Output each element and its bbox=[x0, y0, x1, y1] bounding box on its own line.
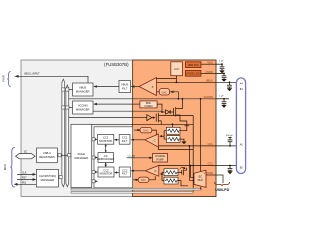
wire DVDD pin net bbox=[201, 72, 216, 74]
wire role manager to CC1 monitor bbox=[92, 138, 97, 141]
capacitor C2 (DVDD) bbox=[222, 73, 227, 79]
wire PHY vertical to rail bbox=[192, 116, 194, 192]
node USB-PD brace bbox=[215, 182, 230, 192]
mux CC switch bbox=[194, 170, 206, 187]
svg-text:1 µF: 1 µF bbox=[219, 61, 224, 63]
pin VBUS bbox=[206, 79, 213, 82]
capacitor C4 (VCONN) bbox=[222, 99, 227, 105]
wire DAC2 to comparator input bbox=[149, 176, 155, 180]
wire monitor-debouncer link 1 bbox=[105, 144, 107, 153]
wire comparator supply tap bbox=[157, 78, 177, 80]
part number label bbox=[104, 62, 129, 67]
wire mux feed vertical bbox=[200, 99, 202, 172]
capacitor C6 (CC2) bbox=[228, 166, 233, 172]
block CC2 monitor bbox=[98, 167, 114, 177]
svg-text:RST: RST bbox=[22, 178, 27, 180]
svg-text:330 pF: 330 pF bbox=[226, 135, 233, 137]
ground VDD cap bbox=[219, 70, 224, 73]
buffer TX driver bbox=[147, 115, 156, 121]
svg-text:FILT: FILT bbox=[122, 86, 128, 90]
svg-text:DVDD: DVDD bbox=[206, 71, 213, 74]
block VCONN manager bbox=[73, 101, 94, 114]
svg-text:VCONN: VCONN bbox=[204, 96, 213, 99]
svg-text:VCONN: VCONN bbox=[78, 104, 88, 108]
wire CLK in bbox=[17, 173, 36, 176]
svg-text:IRQ: IRQ bbox=[22, 183, 26, 185]
wire LDO input riser bbox=[176, 76, 178, 84]
block BMC codec bbox=[140, 101, 157, 108]
svg-text:DVDD LDO: DVDD LDO bbox=[186, 72, 199, 76]
svg-text:MCU: MCU bbox=[3, 164, 7, 170]
transistor Q1 VCONN switch bbox=[174, 99, 183, 117]
block CC1 monitor bbox=[98, 135, 114, 145]
vertical bus 2 bbox=[66, 85, 69, 187]
transistor Rp2 switch bbox=[178, 167, 186, 175]
op-amp CC1 comparator bbox=[145, 134, 158, 147]
wire TX enable bbox=[69, 117, 147, 119]
svg-text:DAC: DAC bbox=[162, 90, 168, 94]
ground DVDD cap bbox=[221, 79, 226, 82]
svg-text:USB-C: USB-C bbox=[43, 151, 51, 155]
svg-text:VDD 3V3: VDD 3V3 bbox=[188, 63, 199, 67]
wire CC1 aux net bbox=[158, 147, 193, 149]
svg-text:PWR: PWR bbox=[2, 75, 6, 82]
wire CC1 comparator output to filter bbox=[131, 139, 145, 141]
svg-text:VBUS: VBUS bbox=[121, 82, 129, 86]
node port VCONN manager bus1 bbox=[62, 106, 65, 109]
DAC DA2 (CC2) bbox=[133, 177, 149, 182]
svg-text:MANAGER: MANAGER bbox=[41, 178, 55, 182]
pin VDD bbox=[207, 61, 224, 66]
wire CC2 net bbox=[159, 165, 237, 167]
chip body U1 bbox=[21, 60, 216, 197]
svg-text:VCONN: VCONN bbox=[204, 172, 213, 175]
resistor Rd2 bbox=[164, 177, 178, 184]
connector USB-PD receptacle bbox=[236, 78, 245, 174]
wire CC1 net bbox=[158, 145, 236, 147]
svg-text:CODEC: CODEC bbox=[144, 105, 153, 108]
wire role manager to container aux bbox=[92, 180, 98, 183]
pin DVDD bbox=[206, 71, 225, 75]
svg-text:VBUS_INPUT: VBUS_INPUT bbox=[24, 72, 40, 75]
node port registers to role link bbox=[57, 154, 71, 157]
svg-text:CLK: CLK bbox=[22, 173, 27, 175]
svg-text:CLK/RST/IRQ: CLK/RST/IRQ bbox=[39, 174, 56, 178]
capacitor C1 (VDD) bbox=[220, 64, 225, 70]
ground VCONN cap bbox=[221, 105, 226, 108]
pin VCONN top bbox=[204, 95, 229, 99]
svg-text:±: ± bbox=[152, 85, 154, 89]
block VDD 3V3 regulator bbox=[185, 62, 201, 68]
resistor Rp2 bbox=[164, 169, 178, 176]
wire VCONN switch to Rp rail bbox=[180, 115, 189, 126]
node port VBUS manager bus2 bbox=[66, 88, 73, 91]
block VBUS filter bbox=[119, 81, 131, 93]
wire BMC output junction bbox=[157, 104, 163, 113]
wire comparator output to VBUS filter bbox=[131, 85, 139, 88]
wire CC1 resistor sense bbox=[159, 131, 166, 139]
svg-text:CC1: CC1 bbox=[208, 143, 214, 146]
ground CC2 cap bbox=[227, 171, 232, 174]
ground VBUS cap bbox=[227, 88, 232, 91]
svg-text:MANAGER: MANAGER bbox=[76, 108, 90, 112]
svg-text:DAC: DAC bbox=[143, 129, 149, 133]
wire CC1 filt to CC1 monitor bbox=[114, 139, 119, 141]
block charge pump bbox=[153, 154, 168, 163]
wire mux input CC2 bbox=[191, 166, 195, 178]
block DVDD LDO bbox=[185, 70, 201, 76]
wire mux input CC1 bbox=[190, 146, 195, 180]
resistor Rd1 bbox=[166, 136, 180, 143]
vertical bus 1 bbox=[62, 79, 65, 187]
svg-text:ROLE: ROLE bbox=[78, 152, 86, 156]
node port clk manager bus1 bbox=[58, 176, 62, 179]
svg-text:PUMP: PUMP bbox=[157, 159, 164, 162]
ground Rd1 bbox=[180, 139, 187, 144]
wire RST in bbox=[17, 178, 36, 181]
block LDO bbox=[171, 62, 183, 76]
svg-text:VBUS: VBUS bbox=[206, 79, 213, 82]
wire CC2 filt to CC2 monitor bbox=[114, 171, 119, 173]
svg-text:MANAGER: MANAGER bbox=[76, 90, 90, 94]
svg-text:VBUS: VBUS bbox=[79, 86, 87, 90]
DAC DA1 (CC1) bbox=[134, 127, 152, 132]
wire VBUS sense net bbox=[157, 81, 237, 83]
wire BMC RX tap bbox=[163, 115, 194, 117]
wire mux output to VCONN pin bbox=[206, 174, 216, 176]
wire BMC to VCONN manager bbox=[93, 103, 140, 106]
node port VBUS manager bus1 bbox=[62, 88, 65, 91]
wire CC2 comparator output to filter bbox=[131, 170, 146, 172]
wire TX route to CC lines bbox=[92, 123, 194, 127]
block USB-C registers bbox=[37, 148, 58, 163]
capacitor C3 (VBUS) bbox=[227, 82, 232, 88]
bus rail 1 bbox=[71, 188, 201, 190]
bus rail 2 bbox=[71, 192, 193, 194]
analog section highlight (orange) bbox=[133, 60, 216, 197]
svg-text:LDO: LDO bbox=[174, 67, 179, 71]
svg-text:DEBOUNCER: DEBOUNCER bbox=[97, 157, 114, 161]
block role manager bbox=[71, 124, 92, 187]
block CC1 filter bbox=[119, 135, 130, 145]
svg-text:FILT: FILT bbox=[122, 172, 128, 176]
pin VCONN bottom bbox=[204, 172, 223, 183]
node port VCONN manager bus2 bbox=[66, 106, 73, 109]
svg-text:DAC: DAC bbox=[141, 178, 147, 182]
block CC2 filter bbox=[119, 167, 130, 177]
svg-text:CC2: CC2 bbox=[208, 162, 214, 165]
DAC GA1 (VBUS) bbox=[157, 89, 179, 99]
wire debouncer to charge pump bbox=[127, 155, 153, 159]
svg-text:USB-PD: USB-PD bbox=[215, 188, 229, 192]
wire debouncer-CC2 monitor link bbox=[105, 162, 107, 167]
svg-text:CC_DB: CC_DB bbox=[128, 155, 136, 157]
wire VBUS_INPUT bbox=[15, 72, 89, 83]
svg-text:MONITOR: MONITOR bbox=[99, 139, 112, 143]
svg-text:(FUSB307B): (FUSB307B) bbox=[104, 62, 129, 67]
pin CC1 bbox=[208, 143, 214, 146]
svg-text:MONITOR: MONITOR bbox=[100, 172, 113, 176]
svg-text:MUX: MUX bbox=[198, 179, 204, 182]
block CLK/RST/IRQ manager bbox=[36, 169, 58, 187]
wire mux control from rail bbox=[199, 187, 201, 190]
block VBUS manager bbox=[73, 83, 94, 96]
pin CC2 bbox=[208, 162, 214, 165]
resistor Rp1 bbox=[166, 127, 180, 134]
svg-text:MANAGER: MANAGER bbox=[75, 156, 89, 160]
wire IRQ out bbox=[14, 183, 37, 186]
PWR brace bbox=[2, 72, 11, 87]
MCU brace bbox=[3, 148, 15, 188]
wire role manager to CC2 monitor bbox=[92, 171, 98, 174]
I2C bus arrow bbox=[16, 152, 35, 159]
op-amp VBUS comparator bbox=[139, 78, 157, 96]
wire Rd2 tail bbox=[178, 181, 188, 186]
capacitor C5 (CC1) bbox=[226, 135, 233, 146]
svg-text:VDD: VDD bbox=[207, 62, 212, 65]
wire VDD pin net bbox=[201, 63, 216, 65]
wire Rp1 to switch rail bbox=[180, 126, 187, 131]
wire manager TX data bbox=[93, 110, 162, 112]
diode body diode bbox=[162, 110, 174, 114]
wire VCONN net bbox=[69, 98, 216, 100]
block CC debouncer bbox=[97, 153, 114, 163]
svg-text:I2C: I2C bbox=[24, 152, 28, 154]
svg-text:FILT: FILT bbox=[122, 139, 128, 143]
transistor Q2 TX pull bbox=[156, 113, 162, 125]
op-amp CC2 comparator bbox=[145, 165, 159, 176]
svg-text:REGISTERS: REGISTERS bbox=[39, 155, 55, 159]
wire DAC1 to comparator input bbox=[152, 130, 157, 134]
wire VBUS filter to VBUS manager bbox=[93, 85, 119, 88]
wire CC2 resistor sense bbox=[160, 172, 164, 180]
wire role manager to debouncer bbox=[92, 156, 98, 159]
svg-text:1 µF: 1 µF bbox=[219, 95, 224, 97]
block type-C detection container bbox=[94, 127, 133, 188]
